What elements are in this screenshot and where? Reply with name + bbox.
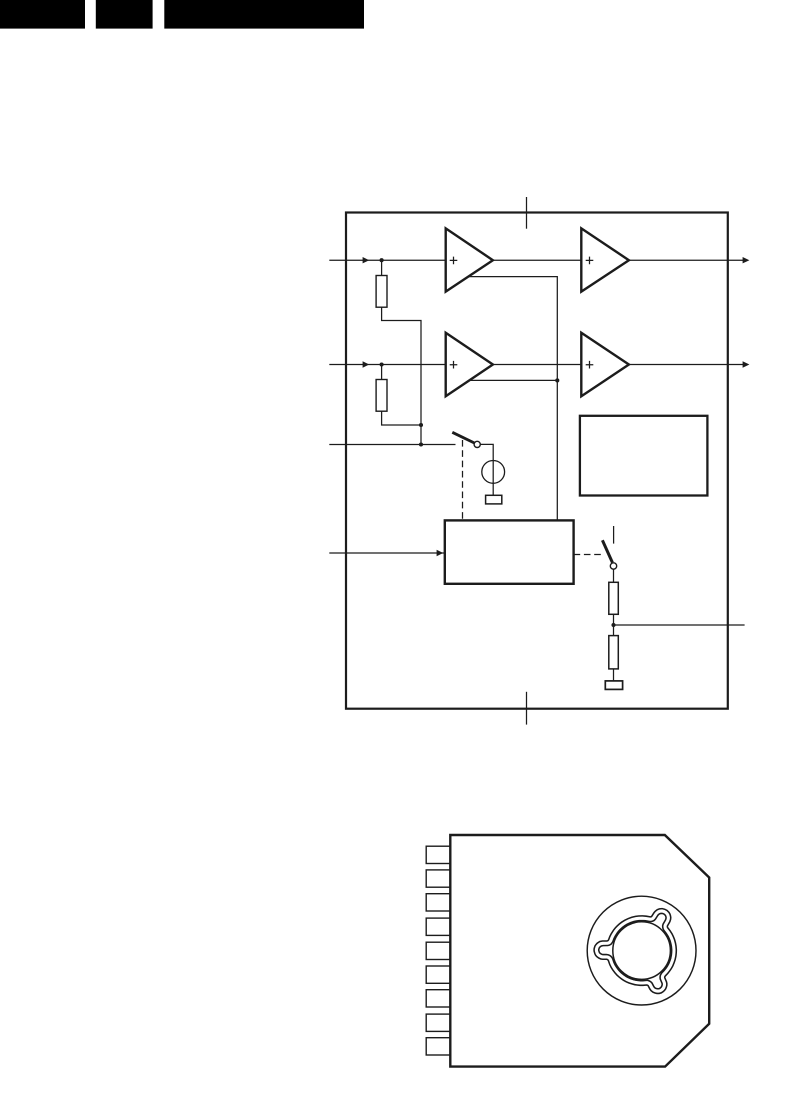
wire R1 top	[381, 260, 383, 275]
wire output row 2	[629, 364, 744, 366]
pin plus A1	[450, 257, 458, 265]
pin 9	[426, 1038, 450, 1055]
wire S1 to source	[480, 444, 493, 495]
op-amp A1	[446, 228, 493, 291]
pin 6	[426, 966, 450, 983]
arrow input row 2	[363, 361, 370, 367]
IC outline box	[346, 213, 728, 709]
pin 2	[426, 870, 450, 887]
header bar middle	[96, 0, 153, 29]
wire feedback tap A2	[469, 379, 557, 381]
node bus junction	[419, 423, 423, 427]
wire input row 1	[329, 259, 445, 261]
source V1 circle	[482, 461, 505, 484]
arrow output row 2	[743, 361, 750, 367]
node junction row1 R1	[380, 258, 384, 262]
wire R3 to node	[613, 614, 615, 635]
dashed control line S1	[462, 440, 464, 520]
op-amp A3	[581, 228, 629, 291]
motor package body	[450, 835, 709, 1067]
wire R2 top	[381, 365, 383, 380]
wire feedback tap A1	[469, 277, 557, 521]
motor outer circle	[587, 896, 696, 1005]
ground block V1	[486, 495, 502, 504]
control block U1	[445, 520, 574, 583]
bottom pin tick	[526, 692, 528, 725]
wire A1 out to A3	[493, 259, 581, 261]
ground block R4	[605, 681, 622, 690]
motor hub circle	[613, 922, 671, 980]
node feedback junction	[555, 378, 559, 382]
node bus row3 junction	[419, 442, 423, 446]
op-amp A4	[581, 333, 629, 397]
arrow input row 1	[363, 257, 370, 263]
resistor R3	[609, 582, 619, 614]
resistor R2	[376, 380, 387, 412]
switch S2 tick	[613, 526, 615, 544]
node divider junction	[611, 623, 615, 627]
wire divider output	[614, 624, 745, 626]
wire S2 to R3	[613, 569, 615, 582]
pin 5	[426, 942, 450, 959]
header bar left	[0, 0, 85, 29]
pin 3	[426, 894, 450, 911]
dashed control line S2	[574, 554, 602, 556]
pin 4	[426, 918, 450, 935]
wire output row 1	[629, 259, 744, 261]
pin 8	[426, 1014, 450, 1031]
block B1	[580, 416, 708, 496]
arrow output row 1	[743, 257, 750, 263]
wire row 3	[329, 444, 455, 446]
wire input row 4	[329, 552, 445, 554]
wire A2 out to A4	[493, 364, 581, 366]
pin 1	[426, 846, 450, 863]
wire R4 to ground	[613, 669, 615, 681]
motor spindle clamp band	[596, 911, 674, 991]
pin plus A2	[450, 361, 458, 369]
pin plus A3	[586, 257, 594, 265]
pin plus A4	[586, 361, 594, 369]
switch S1 blade	[452, 432, 474, 443]
resistor R4	[609, 636, 619, 669]
wire R2 bottom to bus	[382, 411, 421, 425]
op-amp A2	[446, 333, 493, 397]
switch S1 contact	[474, 441, 480, 447]
node junction row2 R2	[380, 362, 384, 366]
pin 7	[426, 990, 450, 1007]
top pin tick	[526, 197, 528, 229]
switch S2 contact	[610, 563, 616, 569]
wire R1 bottom to bus	[382, 307, 421, 444]
resistor R1	[376, 276, 387, 308]
arrow input row 4	[437, 550, 444, 556]
header bar right	[164, 0, 364, 29]
wire input row 2	[329, 364, 445, 366]
switch S2 blade	[602, 540, 612, 562]
